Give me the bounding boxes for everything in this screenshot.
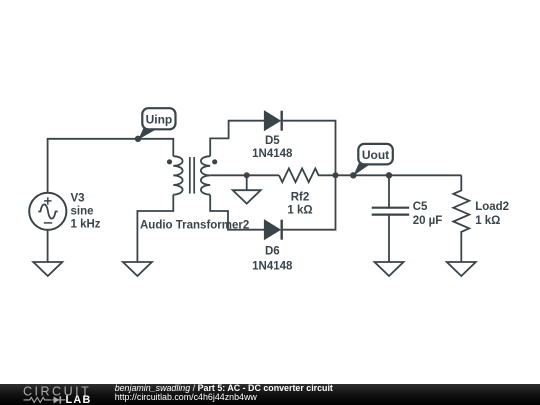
ground under Load2 [447,262,476,276]
wire transformer secondary bottom to D6 [210,195,264,230]
wire transformer secondary top to D5 [210,121,264,157]
wire V3 bottom lead [47,230,49,262]
svg-text:C5: C5 [413,201,428,213]
transformer secondary phase dot [212,159,217,164]
wire D5 cathode to junction [283,121,336,176]
svg-text:D5: D5 [265,135,280,147]
wire top horizontal to transformer [47,139,174,156]
resistor Rf2 [279,168,336,182]
svg-text:1 kHz: 1 kHz [71,219,101,231]
transformer primary phase dot [167,159,172,164]
diode D6 [265,220,282,240]
svg-text:Uinp: Uinp [146,113,173,127]
svg-text:sine: sine [71,206,94,218]
svg-text:1 kΩ: 1 kΩ [287,204,312,216]
node Uinp junction [135,136,141,142]
transformer primary coil [173,156,182,194]
node Uout junction [350,172,356,178]
svg-text:Audio Transformer2: Audio Transformer2 [140,220,249,232]
voltage source V3 [29,193,66,230]
svg-text:1N4148: 1N4148 [252,261,293,273]
svg-text:LAB: LAB [66,394,92,405]
ground under transformer primary [123,262,152,276]
label C5 value [413,201,443,227]
logo schematic squiggle [24,396,66,403]
diode D5 [265,111,282,131]
svg-text:1 kΩ: 1 kΩ [475,215,500,227]
wire transformer secondary center tap [210,174,279,176]
node diode bridge output junction [333,172,339,178]
wire output rail [336,174,462,176]
svg-text:Uout: Uout [362,148,389,162]
wire ground stem [246,175,248,190]
transformer secondary coil [201,156,210,194]
ground under C5 [375,262,404,276]
node C5 junction [386,172,392,178]
label D6 value [252,246,293,273]
svg-text:V3: V3 [71,193,85,205]
label Rf2 value [287,191,312,216]
wire transformer primary bottom to ground [137,195,173,262]
capacitor C5 [372,175,410,262]
svg-text:1N4148: 1N4148 [252,148,293,160]
wire V3 top lead [47,139,49,193]
ground under V3 [33,262,62,276]
label Load2 value [475,201,509,227]
wire D6 cathode up to junction [283,175,336,229]
svg-text:http://circuitlab.com/c4h6j44z: http://circuitlab.com/c4h6j44znb4ww [115,392,258,402]
label V3 value [71,193,101,231]
node center tap ground junction [244,172,250,178]
ground at secondary center tap [233,190,261,203]
svg-text:Load2: Load2 [475,201,509,213]
label D5 value [252,135,293,160]
resistor Load2 [453,175,469,261]
net label Uinp [138,108,175,139]
net label Uout [353,144,392,176]
svg-text:D6: D6 [265,246,280,258]
svg-text:Rf2: Rf2 [291,191,310,203]
transformer core [190,157,194,194]
svg-text:20 µF: 20 µF [413,215,443,227]
footer bar [0,384,540,405]
